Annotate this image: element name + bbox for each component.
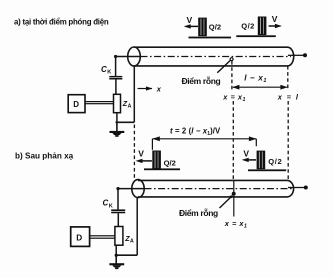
svg-text:Q/2: Q/2: [241, 21, 254, 30]
svg-text:C: C: [103, 199, 109, 208]
svg-text:Q/2: Q/2: [164, 158, 176, 167]
capacitor CK a: [109, 76, 122, 78]
svg-text:x = x1: x = x1: [222, 93, 246, 104]
wire capacitor a to ZA: [115, 80, 117, 95]
dashed line x=x1 below label: [232, 101, 234, 181]
svg-text:x = l: x = l: [277, 93, 300, 102]
wire junction b down to capacitor: [117, 189, 119, 210]
pulse a-left charge block Q/2: [198, 18, 207, 37]
wire b right vertical from cable end: [136, 197, 138, 255]
detector D box a: [68, 95, 85, 113]
wire junction b to cable: [117, 188, 144, 190]
node b bottom junction: [115, 254, 118, 257]
wire ZA a down: [116, 113, 118, 123]
dashed line x=x1 section a: [231, 61, 233, 92]
node void point b: [232, 192, 236, 196]
cable b left end ellipse: [132, 180, 144, 198]
svg-text:x: x: [156, 84, 162, 93]
dimension t line with arrows and end ticks: [152, 136, 256, 149]
wire junction a to cable: [115, 56, 141, 58]
pulse b-right baseline: [248, 169, 286, 171]
svg-text:b) Sau phản xạ: b) Sau phản xạ: [15, 152, 74, 161]
ground a: [110, 131, 125, 137]
svg-text:Q/2: Q/2: [268, 157, 282, 166]
svg-text:V: V: [138, 149, 144, 159]
dashed line x=l section a: [287, 66, 289, 91]
pulse a-left V arrow: [184, 24, 198, 28]
pulse a-right charge block Q/2: [258, 17, 267, 36]
svg-text:t = 2 (l − x1)/V: t = 2 (l − x1)/V: [170, 126, 221, 137]
pulse a-right V arrow: [269, 24, 282, 28]
pulse a-left baseline: [189, 37, 232, 39]
pulse b-left baseline: [144, 168, 180, 170]
wire capacitor b to ZA: [117, 213, 119, 226]
node void point a: [230, 58, 233, 61]
wire a launch-point vertical: [133, 66, 135, 122]
svg-text:A: A: [128, 103, 132, 109]
wire b ground stub: [115, 255, 117, 263]
wire below void b: [233, 196, 235, 217]
cable b body: [138, 180, 294, 197]
pointer line to void a: [217, 61, 230, 73]
impedance ZA box b: [115, 227, 123, 246]
dashed line x=x1 through cable b: [233, 180, 235, 193]
svg-text:K: K: [107, 70, 111, 76]
svg-text:Điểm rỗng: Điểm rỗng: [182, 76, 221, 86]
capacitor CK b: [111, 209, 125, 211]
svg-text:V: V: [187, 15, 193, 25]
svg-text:V: V: [272, 14, 278, 24]
svg-text:Q/2: Q/2: [209, 22, 221, 31]
svg-text:Điểm rỗng: Điểm rỗng: [179, 208, 218, 218]
svg-text:l − x1: l − x1: [244, 73, 267, 84]
svg-text:V: V: [243, 148, 249, 158]
svg-text:A: A: [130, 239, 134, 245]
cable b right axis arrow with dot tip: [288, 187, 304, 189]
svg-text:C: C: [101, 65, 107, 74]
ground b: [109, 263, 124, 269]
pulse a-right baseline: [236, 35, 275, 37]
svg-text:x = x1: x = x1: [224, 219, 248, 230]
cable b axis dash-dot line: [145, 188, 293, 190]
wire ZA b down: [115, 245, 117, 255]
node junction a: [114, 55, 117, 58]
svg-text:D: D: [73, 100, 79, 109]
pulse b-right V arrow: [242, 158, 256, 162]
pointer line to void b: [220, 196, 232, 208]
cable a axis dash-dot line: [141, 56, 292, 58]
impedance ZA box a: [114, 94, 121, 112]
svg-text:D: D: [76, 234, 82, 243]
cable a right axis arrow with dot tip: [288, 54, 304, 56]
wire junction a down to capacitor: [115, 57, 117, 77]
dashed line x=l lower part: [287, 101, 289, 180]
node junction b: [116, 187, 119, 190]
svg-text:a) tại thời điểm phóng điện: a) tại thời điểm phóng điện: [14, 18, 109, 27]
svg-text:K: K: [109, 203, 113, 209]
pulse b-right charge block Q/2: [257, 151, 266, 170]
dimension l - x1 arrows: [232, 85, 287, 90]
cable a left end ellipse: [128, 47, 141, 66]
dashed line x=0 from a to b: [133, 125, 135, 180]
twin lead D to ZA a: [85, 101, 114, 102]
detector D box b: [71, 227, 90, 247]
wire b bottom horizontal: [116, 254, 137, 256]
cable a body: [134, 47, 294, 66]
wire a bottom horizontal: [116, 121, 135, 123]
twin lead D to ZA b: [90, 235, 115, 236]
x axis arrow a: [138, 86, 153, 90]
wire a ground stub: [116, 122, 118, 131]
pulse b-left charge block Q/2: [152, 151, 161, 170]
pulse b-left V arrow: [136, 159, 152, 163]
